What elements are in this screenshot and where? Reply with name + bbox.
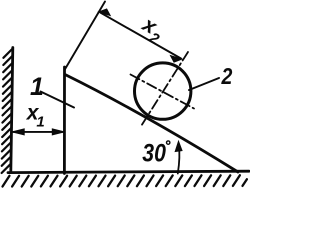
svg-text:1: 1 [30,73,44,101]
angle arrow (30 deg marker) [178,145,180,174]
wall [11,48,13,173]
arrowhead angle [175,141,182,151]
dimension line x2 [101,13,182,59]
wedge 1: vertical left edge [63,67,66,174]
svg-text:2: 2 [221,64,233,90]
arrowhead x1 right [52,129,64,135]
dimension line x1 [13,131,64,133]
leader line for label 2 [189,78,219,90]
arrowhead x1 left [12,129,24,135]
arrowhead x2 upper-left [99,9,111,16]
svg-text:30: 30 [142,139,166,167]
centerline parallel to incline (dash-dot) [131,75,195,109]
leader line for label 1 [41,92,75,108]
ground hatching [3,175,247,186]
ground [8,171,249,172]
wall hatching [2,49,13,174]
centerline perpendicular to incline (dash-dot) [141,52,189,127]
ball 2: circle [135,63,191,119]
label x2 (rotated with dimension line) [135,12,168,48]
svg-text:1: 1 [36,113,44,130]
extension line (perpendicular to incline at apex) [65,2,105,70]
wedge 1: inclined surface (30 deg) [65,75,238,173]
degree symbol [167,141,170,144]
arrowhead x2 lower-right [171,56,183,63]
